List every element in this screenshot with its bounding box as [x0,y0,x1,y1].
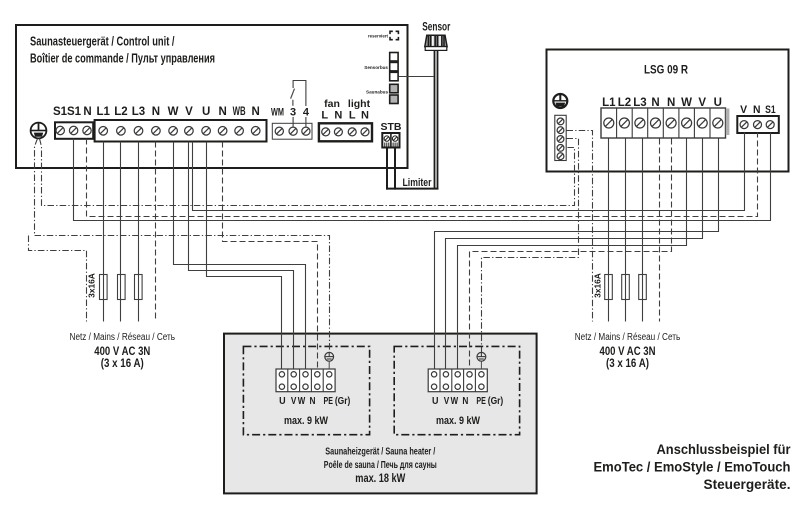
wire S1 control to LSG S1 [74,133,771,221]
right mains supply label [575,332,681,370]
svg-text:PE: PE [323,395,333,407]
svg-text:S1: S1 [67,106,82,118]
terminal WB [235,127,244,136]
terminal fan L [322,128,330,136]
svg-text:L3: L3 [633,97,646,109]
svg-text:Limiter: Limiter [403,177,433,189]
connector square 2 [390,62,398,71]
svg-text:max. 18 kW: max. 18 kW [355,471,406,485]
terminal N2 [666,118,676,128]
SECTION: heater [224,334,537,494]
right fuse F6 3x16A [639,275,647,300]
ground PE symbol of control unit [31,123,47,139]
terminal W [169,127,178,136]
label reserviert [368,33,389,38]
svg-text:V: V [698,97,706,109]
labels WM 3 4 [271,107,310,119]
svg-text:V: V [444,395,450,407]
connector square 1 [390,53,398,62]
STB wire 1 to limiter [386,148,388,190]
terminal S1 pin1 [56,126,64,134]
wire sensorbus to sensor cable [399,76,434,78]
svg-text:V: V [291,395,297,407]
svg-text:W: W [168,106,179,118]
svg-text:U: U [202,106,210,118]
label 3x16A right [593,273,603,298]
svg-text:reserviert: reserviert [368,33,389,38]
heater 2 labels U V W N PE (Gr) [432,395,503,407]
heater 2 terminal block [428,369,487,392]
terminal L3 [134,127,143,136]
heater 2 dash-dot enclosure [394,346,519,434]
labels L1 L2 L3 N W V U N WB N [96,106,259,118]
wire N control to left supply (dashed) [155,142,157,322]
label Saunabus [366,90,388,95]
wire LSG PE pin3 to heater2 PE (dash-dot) [482,139,579,353]
svg-text:W: W [451,395,459,407]
terminal S1 pin2 [69,126,77,134]
wire LSG L2 to right fuse [625,139,627,322]
terminal N3 [251,127,260,136]
left fuse F1 3x16A [100,275,108,300]
svg-text:Sensorbus: Sensorbus [364,65,388,70]
svg-text:STB: STB [381,121,402,133]
svg-text:W: W [681,97,692,109]
heater 1 dash-dot enclosure [243,346,369,434]
terminal strip S1 S1 N [55,122,93,139]
svg-text:N: N [310,395,316,407]
connector square 4 (saunabus) [390,84,398,93]
svg-text:Saunabus: Saunabus [366,90,388,95]
sauna heater box [224,334,537,494]
wire LSG L3 to right fuse [642,139,644,322]
svg-text:PE: PE [476,395,486,407]
svg-text:(3 x 16 A): (3 x 16 A) [101,356,144,370]
label LSG 09 R [644,63,688,77]
svg-text:V: V [740,104,748,116]
svg-text:U: U [432,395,439,407]
LSG 09 R box U2 [547,50,789,172]
svg-text:L2: L2 [618,97,631,109]
labels fan light [321,98,370,121]
LSG PE terminal strip (5 screws) [555,115,566,160]
svg-text:V: V [185,106,193,118]
caption Anschlussbeispiel [594,442,792,492]
STB wire 2 to limiter [394,148,396,190]
wire PE branch to left mains supply (dash-dot) [29,236,87,322]
svg-text:Sensor: Sensor [422,22,450,34]
svg-text:N: N [334,109,342,121]
svg-text:S1: S1 [53,106,68,118]
label 3x16A left [87,273,97,298]
wire PE control ground to heater1 PE and supply (dash-dot) [35,139,330,353]
svg-text:N: N [252,106,260,118]
label Limiter [403,177,433,189]
svg-text:N: N [651,97,659,109]
terminal fan N [334,128,342,136]
left fuse F3 3x16A [135,275,143,300]
svg-text:N: N [462,395,468,407]
PE pin3 [557,136,564,143]
gray end cap of strip [726,109,730,136]
svg-text:L1: L1 [96,106,110,118]
PE pin5 [557,153,564,160]
svg-text:3: 3 [290,107,296,119]
switch symbol between pins 3 and 4 [291,81,306,128]
svg-text:L: L [349,109,356,121]
svg-text:3x16A: 3x16A [87,273,97,298]
SECTION: labels [70,332,792,492]
svg-text:Netz / Mains / Réseau / Сеть: Netz / Mains / Réseau / Сеть [575,332,681,343]
terminal strip V N S1 [737,116,779,133]
svg-text:WB: WB [233,106,246,118]
terminal N1 [651,118,661,128]
terminal S1 [766,121,774,129]
terminal L3 [635,118,645,128]
svg-text:W: W [298,395,306,407]
svg-text:N: N [152,106,160,118]
terminal L2 [117,127,126,136]
wire N control to LSG N (dashed) [87,133,758,217]
terminal V [740,121,748,129]
sensor cable (double line) [435,50,438,188]
wire N control to heater1 N (dashed) [223,142,318,369]
label Sensorbus [364,65,388,70]
wire PE control ground to LSG PE (dash-dot) [40,139,575,206]
PE pin2 [557,127,564,134]
wire U control to heater1 U [207,142,282,369]
wire V control to heater1 V [189,142,294,369]
PE pin4 [557,145,564,152]
heater 1 label max 9 kW [284,415,328,427]
SECTION: lsg [547,50,789,172]
svg-text:N: N [218,106,226,118]
svg-text:S1: S1 [765,104,776,116]
svg-text:N: N [667,97,675,109]
labels V N S1 [740,104,776,116]
heater 1 labels U V W N PE (Gr) [279,395,350,407]
svg-text:Steuergeräte.: Steuergeräte. [704,477,791,492]
right fuse F4 3x16A [605,275,613,300]
terminal strip WM 3 4 [272,123,312,139]
wire W control to heater1 W [174,142,306,369]
terminal U [713,118,723,128]
svg-text:L3: L3 [132,106,145,118]
SECTION: control unit [16,25,408,168]
STB connector [382,133,399,148]
wire LSG U to heater2 U [435,139,719,369]
SECTION: wires [29,22,771,369]
svg-text:(3 x 16 A): (3 x 16 A) [606,356,649,370]
labels S1 S1 N [53,106,92,118]
terminal WM [275,127,283,135]
wire L3 control to left fuse [138,142,140,322]
LSG main terminal strip L1 L2 L3 N N W V U [601,108,726,138]
terminal V [697,118,707,128]
terminal W [682,118,692,128]
label: Saunasteuergeraet / Control unit title [30,35,215,66]
heater 2 label max 9 kW [436,415,480,427]
svg-text:Saunaheizgerät / Sauna heater: Saunaheizgerät / Sauna heater / [325,446,435,457]
svg-text:max. 9 kW: max. 9 kW [284,415,328,427]
reserviert connector (dashed square) [390,31,398,39]
terminal light N [361,128,369,136]
svg-text:U: U [714,97,722,109]
right fuse F5 3x16A [622,275,630,300]
svg-text:L1: L1 [602,97,616,109]
ground PE symbol of LSG [553,94,567,108]
svg-text:U: U [279,395,286,407]
svg-text:Saunasteuergerät / Control uni: Saunasteuergerät / Control unit / [30,35,175,49]
left fuse F2 3x16A [118,275,126,300]
heater 1 earth symbol [325,352,334,369]
svg-text:L: L [321,109,328,121]
svg-text:Poêle de sauna / Печь для саун: Poêle de sauna / Печь для сауны [324,460,437,471]
terminal L1 [99,127,108,136]
wire LSG PE pin2 to right supply (dash-dot) [567,131,593,322]
connector square 3 [390,72,398,81]
svg-text:max. 9 kW: max. 9 kW [436,415,480,427]
PE pin1 [557,118,564,125]
wire LSG V to heater2 V [446,139,703,369]
svg-text:EmoTec / EmoStyle / EmoTouch: EmoTec / EmoStyle / EmoTouch [594,459,791,474]
terminal L2 [619,118,629,128]
heater 1 terminal block [276,369,335,392]
wire LSG L1 to right fuse [608,139,610,322]
svg-text:Netz / Mains / Réseau / Сеть: Netz / Mains / Réseau / Сеть [70,332,176,343]
svg-text:(Gr): (Gr) [335,395,351,407]
limiter box bottom [386,188,439,190]
label STB [381,121,402,133]
svg-text:WM: WM [271,107,284,119]
wire L2 control to left fuse [120,142,122,322]
svg-text:4: 4 [303,107,310,119]
terminal N [754,121,762,129]
wire LSG N2 to heater2 N (dashed) [470,139,672,369]
left mains supply label [70,332,176,370]
svg-text:LSG 09 R: LSG 09 R [644,63,688,77]
wire V control to LSG V [193,133,745,211]
terminal V [185,127,194,136]
connector square 5 (saunabus) [390,95,398,104]
terminal L1 [604,118,614,128]
terminal 3 [289,127,297,135]
sensor head [425,35,447,50]
svg-text:N: N [83,106,91,118]
terminal N [152,127,161,136]
terminal U [202,127,211,136]
terminal 4 [302,127,310,135]
svg-text:N: N [753,104,761,116]
labels L1 L2 L3 N N W V U [602,97,722,109]
heater 2 earth symbol [477,352,486,369]
main terminal strip L1 L2 L3 N W V U N WB N [95,120,267,142]
label Sensor [422,22,450,34]
terminal N pin3 [83,126,91,134]
wire LSG W to heater2 W [458,139,687,369]
svg-text:Boîtier de commande / Пульт уп: Boîtier de commande / Пульт управления [30,52,215,66]
control unit box U1 [16,25,408,168]
svg-text:L2: L2 [114,106,127,118]
wire L1 control to left fuse [103,142,105,322]
terminal strip fan light L N L N [319,123,372,141]
svg-text:Anschlussbeispiel für: Anschlussbeispiel für [657,442,792,457]
svg-text:N: N [361,109,369,121]
heater caption texts [324,446,437,485]
svg-text:3x16A: 3x16A [593,273,603,298]
wire LSG N1 to right supply (dashed) [659,139,661,322]
terminal light L [348,128,356,136]
terminal N2 [218,127,227,136]
svg-text:(Gr): (Gr) [488,395,504,407]
